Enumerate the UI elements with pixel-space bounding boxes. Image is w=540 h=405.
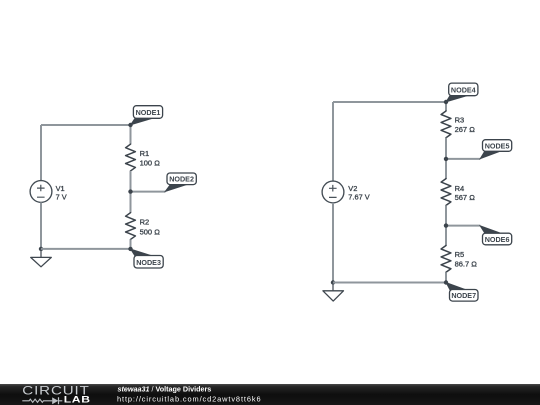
junction node NODE3: [128, 247, 132, 251]
svg-text:R3: R3: [455, 116, 465, 125]
wire R1 top lead: [130, 125, 132, 144]
svg-text:stewaa31 / Voltage Dividers: stewaa31 / Voltage Dividers: [118, 384, 212, 393]
wire R3 top lead: [445, 102, 447, 111]
R5 value label: [455, 250, 478, 268]
wire NODE5 stub: [446, 158, 480, 160]
resistor R4: [441, 179, 451, 206]
wire V2 bottom lead: [332, 203, 334, 283]
voltage source V1: [30, 181, 52, 203]
node NODE6 flag: [480, 226, 512, 245]
R4 value label: [455, 184, 476, 202]
resistor R5: [441, 246, 451, 273]
footer url text: [117, 395, 261, 404]
svg-text:R2: R2: [140, 218, 150, 227]
svg-text:NODE5: NODE5: [485, 141, 510, 150]
svg-text:NODE3: NODE3: [136, 258, 161, 267]
node NODE5 flag: [480, 140, 512, 159]
wire R5 bottom lead: [445, 272, 447, 282]
node NODE3 flag: [131, 249, 164, 268]
node NODE7 flag: [446, 283, 478, 301]
footer bar: [0, 384, 540, 405]
wire R2 bottom lead: [130, 239, 132, 248]
svg-text:R1: R1: [140, 149, 150, 158]
svg-text:86.7 Ω: 86.7 Ω: [455, 260, 478, 269]
svg-text:R4: R4: [455, 184, 465, 193]
svg-text:NODE1: NODE1: [136, 108, 161, 117]
wire V2 top lead: [332, 102, 334, 181]
resistor R3: [441, 111, 451, 138]
junction at V1 ground: [39, 247, 43, 251]
wire top-left horizontal V1 to NODE1: [41, 124, 131, 126]
R1 value label: [140, 149, 161, 168]
svg-text:R5: R5: [455, 250, 465, 259]
junction node NODE1: [128, 123, 132, 127]
V1 value label: [56, 184, 67, 201]
R2 value label: [140, 218, 161, 237]
junction node NODE5: [444, 157, 448, 161]
voltage source V2: [322, 181, 344, 203]
wire V1 top lead: [40, 125, 42, 181]
svg-text:http://circuitlab.com/cd2awtv8: http://circuitlab.com/cd2awtv8tt6k6: [117, 395, 261, 404]
wire bottom-left horizontal: [41, 248, 131, 250]
ground (right): [323, 283, 344, 302]
node NODE1 flag: [131, 106, 163, 125]
svg-text:LAB: LAB: [64, 395, 91, 405]
wire NODE6 stub: [446, 225, 480, 227]
svg-text:267 Ω: 267 Ω: [455, 125, 476, 134]
R3 value label: [455, 116, 476, 135]
CircuitLab logo squiggle (resistor + diode): [22, 397, 62, 404]
svg-text:567 Ω: 567 Ω: [455, 193, 476, 202]
svg-text:7 V: 7 V: [56, 192, 67, 201]
wire R2 top lead: [130, 192, 132, 213]
junction node NODE6: [444, 223, 448, 227]
CircuitLab logo wordmark CIRCUIT: [22, 384, 89, 397]
CircuitLab logo wordmark LAB: [64, 395, 91, 405]
wire bottom-right horizontal: [333, 282, 446, 284]
wire R5 top lead: [445, 226, 447, 246]
resistor R2: [126, 213, 136, 240]
node NODE4 flag: [446, 83, 478, 102]
wire R4 top lead: [445, 159, 447, 179]
wire R1 bottom lead: [130, 171, 132, 192]
junction node NODE2: [128, 189, 132, 193]
wire NODE2 stub: [131, 191, 166, 193]
node NODE2 flag: [165, 173, 196, 191]
svg-text:NODE2: NODE2: [169, 175, 194, 184]
svg-text:NODE4: NODE4: [451, 85, 476, 94]
junction node NODE4: [444, 100, 448, 104]
svg-text:7.67 V: 7.67 V: [348, 192, 369, 201]
resistor R1: [126, 144, 136, 171]
wire V1 bottom lead: [40, 202, 42, 249]
ground (left): [31, 249, 52, 267]
junction node NODE7: [444, 280, 448, 284]
svg-text:NODE6: NODE6: [485, 235, 510, 244]
wire R4 bottom lead: [445, 205, 447, 225]
wire top-right horizontal V2 to NODE4: [333, 101, 446, 103]
svg-text:NODE7: NODE7: [451, 291, 476, 300]
svg-text:500 Ω: 500 Ω: [140, 227, 161, 236]
wire R3 bottom lead: [445, 138, 447, 159]
V2 value label: [348, 184, 369, 201]
junction at V2 ground: [331, 280, 335, 284]
footer title text: [118, 384, 212, 393]
svg-text:100 Ω: 100 Ω: [140, 158, 161, 167]
